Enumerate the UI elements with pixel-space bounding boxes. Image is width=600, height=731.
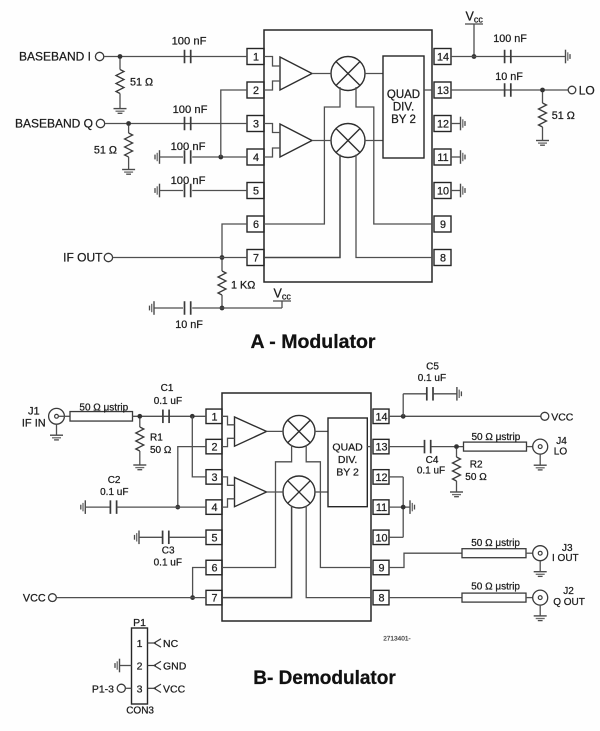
svg-text:DIV.: DIV. [393, 102, 414, 114]
svg-text:9: 9 [378, 563, 384, 575]
svg-text:0.1 uF: 0.1 uF [100, 487, 128, 498]
svg-text:2: 2 [253, 85, 259, 97]
svg-text:VCC: VCC [551, 412, 574, 424]
svg-text:50 Ω: 50 Ω [150, 445, 172, 456]
svg-text:13: 13 [437, 85, 449, 97]
svg-text:50 Ω μstrip: 50 Ω μstrip [471, 582, 520, 593]
svg-text:10 nF: 10 nF [495, 71, 523, 83]
svg-text:P1: P1 [133, 617, 146, 629]
svg-text:50 Ω μstrip: 50 Ω μstrip [471, 538, 520, 549]
svg-text:5: 5 [211, 532, 217, 544]
svg-text:10 nF: 10 nF [175, 319, 203, 331]
svg-text:J4: J4 [556, 436, 567, 447]
svg-text:100 nF: 100 nF [493, 33, 527, 45]
svg-text:8: 8 [378, 593, 384, 605]
svg-text:6: 6 [211, 563, 217, 575]
svg-text:R1: R1 [150, 433, 163, 444]
svg-text:10: 10 [375, 532, 387, 544]
svg-text:C3: C3 [162, 546, 175, 557]
svg-text:DIV.: DIV. [338, 454, 357, 466]
svg-text:B- Demodulator: B- Demodulator [253, 668, 396, 689]
svg-text:4: 4 [211, 502, 217, 514]
svg-text:51 Ω: 51 Ω [94, 145, 117, 157]
svg-text:2: 2 [211, 442, 217, 454]
svg-text:0.1 uF: 0.1 uF [154, 558, 182, 569]
svg-text:7: 7 [253, 253, 259, 265]
svg-text:50 Ω μstrip: 50 Ω μstrip [79, 403, 128, 414]
svg-text:NC: NC [163, 638, 179, 650]
svg-text:J1: J1 [28, 406, 40, 418]
svg-text:13: 13 [375, 442, 387, 454]
svg-text:12: 12 [375, 472, 387, 484]
svg-text:3: 3 [137, 683, 143, 695]
svg-text:GND: GND [163, 661, 187, 673]
svg-text:3: 3 [211, 472, 217, 484]
svg-text:6: 6 [253, 219, 259, 231]
svg-text:2713401-: 2713401- [383, 636, 410, 643]
svg-text:11: 11 [437, 152, 448, 164]
svg-text:0.1 uF: 0.1 uF [417, 466, 445, 477]
svg-text:1 KΩ: 1 KΩ [231, 280, 255, 292]
svg-text:J2: J2 [563, 586, 574, 597]
svg-text:100 nF: 100 nF [173, 104, 208, 116]
svg-text:8: 8 [440, 253, 446, 265]
svg-text:A - Modulator: A - Modulator [251, 331, 376, 353]
svg-text:IF IN: IF IN [22, 418, 46, 430]
svg-text:14: 14 [375, 411, 387, 423]
svg-text:QUAD: QUAD [332, 442, 363, 454]
svg-text:0.1 uF: 0.1 uF [418, 373, 446, 384]
svg-text:QUAD: QUAD [387, 89, 420, 101]
svg-text:R2: R2 [470, 460, 483, 471]
svg-text:P1-3: P1-3 [92, 684, 114, 696]
svg-text:1: 1 [137, 638, 143, 650]
svg-text:VCC: VCC [163, 683, 186, 695]
svg-text:3: 3 [253, 119, 259, 131]
svg-text:BY 2: BY 2 [336, 467, 359, 479]
svg-text:50 Ω μstrip: 50 Ω μstrip [471, 432, 520, 443]
svg-text:VCC: VCC [23, 593, 46, 605]
svg-text:100 nF: 100 nF [171, 175, 206, 187]
svg-text:C4: C4 [426, 455, 439, 466]
svg-text:1: 1 [211, 411, 217, 423]
svg-text:IF OUT: IF OUT [63, 251, 103, 265]
svg-text:100 nF: 100 nF [172, 36, 207, 48]
svg-text:51 Ω: 51 Ω [130, 77, 153, 89]
svg-text:CON3: CON3 [126, 706, 154, 717]
svg-text:9: 9 [440, 219, 446, 231]
svg-text:0.1 uF: 0.1 uF [154, 396, 182, 407]
svg-text:LO: LO [554, 447, 568, 458]
svg-text:2: 2 [137, 661, 143, 673]
svg-text:BASEBAND I: BASEBAND I [19, 50, 91, 64]
svg-text:10: 10 [437, 186, 449, 198]
svg-text:11: 11 [376, 502, 387, 514]
svg-text:4: 4 [253, 152, 259, 164]
svg-text:50 Ω: 50 Ω [465, 472, 487, 483]
svg-text:100 nF: 100 nF [171, 141, 206, 153]
svg-text:Q OUT: Q OUT [553, 597, 585, 608]
svg-text:1: 1 [253, 52, 259, 64]
svg-text:C5: C5 [426, 362, 439, 373]
svg-text:C2: C2 [108, 475, 121, 486]
svg-text:51 Ω: 51 Ω [552, 110, 575, 122]
svg-text:12: 12 [437, 119, 449, 131]
svg-text:5: 5 [253, 186, 259, 198]
svg-text:BASEBAND Q: BASEBAND Q [15, 117, 93, 131]
svg-text:BY 2: BY 2 [391, 114, 416, 126]
svg-text:C1: C1 [161, 383, 174, 394]
svg-text:I OUT: I OUT [552, 553, 579, 564]
svg-text:LO: LO [579, 83, 595, 97]
svg-text:14: 14 [437, 52, 449, 64]
svg-text:7: 7 [211, 593, 217, 605]
